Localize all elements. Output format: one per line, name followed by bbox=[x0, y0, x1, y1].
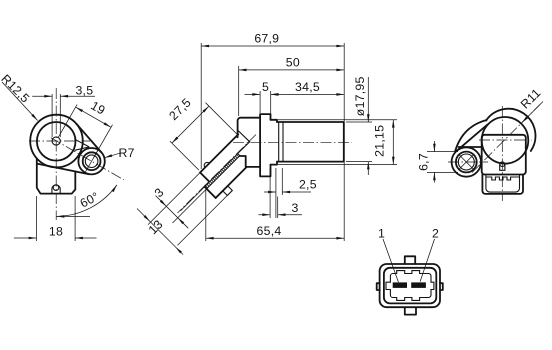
keyhole detail rect bbox=[500, 164, 505, 170]
small boss outer circle bbox=[78, 148, 104, 174]
horizontal centerline bbox=[233, 141, 352, 143]
hook outer curve bbox=[455, 120, 486, 151]
shroud outer bbox=[482, 175, 523, 194]
boss horizontal centerline bbox=[448, 161, 488, 163]
center hub circle bbox=[52, 137, 60, 145]
svg-text:R12,5: R12,5 bbox=[0, 72, 32, 106]
dimension 6,7 line with outside arrows bbox=[433, 141, 435, 183]
main body outline bbox=[237, 118, 261, 167]
inner V cone bbox=[238, 130, 250, 153]
connector body rect bbox=[482, 135, 526, 175]
dimension 3 line bbox=[259, 214, 303, 216]
svg-text:6,7: 6,7 bbox=[417, 153, 431, 171]
svg-text:ø17,95: ø17,95 bbox=[353, 76, 367, 116]
svg-text:5: 5 bbox=[262, 80, 269, 94]
dimension 3,5 line with outside arrows bbox=[32, 95, 95, 97]
dimension 21,15 line inside arrows bbox=[392, 120, 394, 165]
step block bbox=[271, 120, 278, 165]
outer shell bbox=[380, 264, 440, 307]
right tab bbox=[440, 283, 443, 290]
leader 2 bbox=[420, 239, 434, 282]
keyhole detail circle bbox=[500, 162, 505, 167]
leader R7 bbox=[104, 153, 121, 158]
dimension 6,7 extension lines bbox=[427, 152, 458, 173]
small boss hole bbox=[85, 155, 98, 168]
dimension 5 extension lines bbox=[260, 91, 271, 118]
dimension 67,9 extension lines bbox=[201, 43, 344, 241]
centerline through both hole centers (60 deg line) bbox=[51, 138, 124, 180]
boss outer circle bbox=[452, 147, 481, 176]
dimension 5 line with outside arrows bbox=[245, 93, 345, 95]
tab on lower face bbox=[223, 186, 233, 196]
dimension 50 line bbox=[239, 69, 345, 71]
dimension 2,5 line bbox=[264, 191, 311, 193]
web line between boss and connector body bbox=[459, 146, 482, 148]
svg-text:19: 19 bbox=[88, 98, 107, 117]
dimension 27,5 extension lines bbox=[170, 103, 237, 170]
svg-text:50: 50 bbox=[286, 55, 300, 69]
vertical centerline bbox=[55, 88, 57, 220]
shroud inner opening with teeth bbox=[486, 175, 520, 193]
bracket end face bbox=[195, 172, 209, 186]
housing end face bbox=[205, 187, 216, 198]
top tab bbox=[405, 256, 415, 264]
body bottom small latch bump bbox=[52, 185, 60, 194]
flange plate bbox=[260, 114, 270, 176]
svg-text:3,5: 3,5 bbox=[75, 84, 93, 98]
svg-text:1: 1 bbox=[378, 227, 385, 241]
dimension 19 line bbox=[76, 107, 111, 127]
hook inner tangent line bbox=[457, 125, 488, 151]
housing lower face bbox=[216, 167, 247, 198]
left tab bbox=[377, 283, 380, 290]
boss hole bbox=[458, 154, 474, 170]
bump on top edge bbox=[203, 161, 209, 167]
pin 2 bbox=[411, 282, 426, 288]
upper tangent line bbox=[76, 124, 101, 153]
bottom tab bbox=[405, 307, 416, 314]
svg-text:R7: R7 bbox=[118, 146, 134, 160]
dimension o17,95 extension lines bbox=[346, 122, 372, 162]
bracket top edge bbox=[200, 134, 238, 172]
svg-text:18: 18 bbox=[49, 225, 63, 239]
big inner circle bbox=[37, 122, 76, 161]
cylinder groove lines bbox=[279, 122, 283, 162]
big outer circle bbox=[30, 115, 83, 168]
bracket dim extension lines 45deg bbox=[148, 173, 232, 246]
boss ring bbox=[456, 152, 477, 173]
svg-text:21,15: 21,15 bbox=[373, 125, 387, 157]
dimension 3 extension lines bbox=[270, 168, 278, 218]
wedge notch lines bbox=[75, 139, 90, 150]
svg-text:65,4: 65,4 bbox=[257, 224, 282, 238]
svg-text:34,5: 34,5 bbox=[295, 80, 320, 94]
horizontal centerline bbox=[29, 140, 90, 142]
R11 head circle bbox=[482, 117, 529, 164]
svg-text:3: 3 bbox=[152, 185, 167, 200]
dimension 3 (bracket) line bbox=[156, 196, 189, 229]
leader 1 bbox=[383, 239, 398, 282]
dimension 18 line bbox=[14, 237, 97, 239]
svg-text:3: 3 bbox=[291, 201, 298, 215]
castellated key profile bbox=[386, 271, 434, 301]
dimension 19 extension lines bbox=[58, 105, 112, 158]
lower tangent line bbox=[38, 164, 89, 174]
pin 1 bbox=[393, 282, 407, 288]
svg-text:2,5: 2,5 bbox=[299, 178, 317, 192]
bracket axis centerline 45deg bbox=[178, 135, 257, 214]
inner shell bbox=[384, 268, 436, 304]
body lower rectangle bbox=[37, 159, 76, 194]
45 deg bracket group bbox=[193, 132, 263, 202]
dimension 2,5 extension lines bbox=[276, 168, 282, 218]
svg-text:60°: 60° bbox=[78, 189, 102, 210]
dimension 27,5 line bbox=[172, 106, 209, 143]
small boss ring bbox=[83, 152, 101, 170]
cylinder pole piece bbox=[277, 122, 344, 162]
60 degree arc bbox=[57, 185, 117, 217]
small boss perpendicular center tick bbox=[85, 150, 98, 173]
svg-text:67,9: 67,9 bbox=[254, 32, 279, 46]
60 arc horizontal tail bbox=[57, 215, 90, 217]
dimension 65,4 extension line bbox=[205, 189, 207, 241]
dimension 3,5 extension lines bbox=[52, 94, 60, 137]
svg-text:2: 2 bbox=[432, 227, 439, 241]
svg-text:27,5: 27,5 bbox=[166, 95, 194, 123]
leader R11 bbox=[522, 102, 544, 124]
hatch band bbox=[205, 154, 240, 189]
dimension 13 line bbox=[137, 209, 183, 255]
outer head contour arc bbox=[486, 109, 535, 151]
dimension 65,4 line bbox=[206, 237, 344, 239]
dimension 50 extension line bbox=[238, 66, 240, 116]
diagonal centerline 45deg bbox=[472, 105, 540, 173]
svg-text:R11: R11 bbox=[518, 86, 544, 112]
dimension 18 extension lines bbox=[36, 196, 75, 241]
leader R12,5 bbox=[2, 82, 38, 121]
boss diagonal cross bbox=[459, 155, 473, 169]
horizontal centerline bbox=[479, 139, 532, 141]
latch bump circle bbox=[53, 185, 59, 191]
dimension 21,15 extension lines bbox=[278, 120, 397, 165]
dimension o17,95 line with outside arrows bbox=[367, 77, 369, 175]
vertical centerline bbox=[501, 106, 503, 201]
dimension 34,5 arrows bbox=[271, 93, 279, 96]
dimension 67,9 line bbox=[201, 45, 344, 47]
